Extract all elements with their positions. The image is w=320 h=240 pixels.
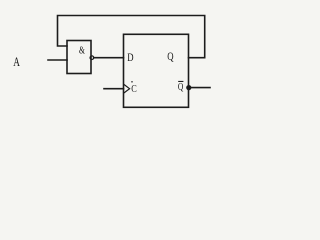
clock dynamic-input triangle [124,85,129,93]
svg-text:C: C [131,83,137,95]
svg-text:&: & [79,44,85,55]
svg-text:A: A [13,56,20,70]
junction dot at Q-bar output [186,85,191,90]
wire: feedback loop from Q output to NAND input (top) [58,16,205,58]
paper background [0,0,252,117]
wire: Q-bar output [189,87,211,89]
wire: input A to NAND [48,59,67,61]
wire: clock input C [104,88,124,90]
flip-flop U2 body [124,34,189,107]
svg-text:D: D [127,52,134,65]
svg-text:Q: Q [167,51,174,64]
svg-text:Q: Q [178,81,184,92]
gate U1 NAND body [67,41,91,74]
inverter bubble at NAND output [90,56,94,60]
wire: NAND output to D input [94,57,124,59]
overbar of Q-bar [178,81,183,82]
dot above C [131,81,133,83]
